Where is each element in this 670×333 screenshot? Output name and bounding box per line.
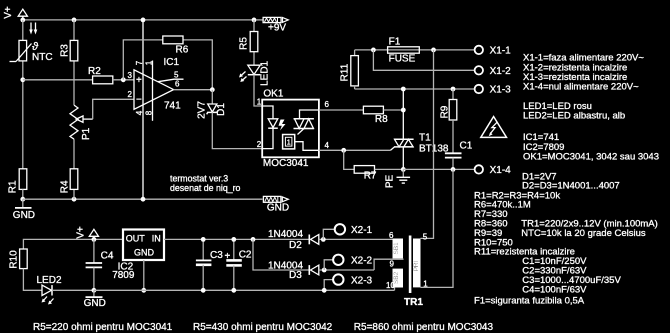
node dot IN rail / D3 branch (251, 237, 256, 242)
svg-text:X1-4=nul alimentare 220V~: X1-4=nul alimentare 220V~ (523, 82, 639, 93)
label GND tag (267, 203, 289, 214)
label OK1 pin 1 (257, 98, 262, 107)
OK1 zero-cross box (283, 135, 319, 151)
svg-text:R11: R11 (339, 63, 350, 81)
label FUSE (389, 54, 416, 65)
wire GND rail opamp section (23, 198, 263, 200)
resistor R2 (93, 76, 113, 84)
label X2-1 (351, 225, 373, 236)
svg-text:7809: 7809 (112, 270, 135, 281)
label C3 plus (225, 251, 231, 262)
svg-text:LED2=LED albastru, alb: LED2=LED albastru, alb (523, 110, 625, 121)
OK1 internal triac (294, 110, 319, 135)
transformer TR1 core (409, 236, 412, 294)
svg-text:GND: GND (84, 298, 106, 309)
wire LED2 to GND rail (52, 289, 94, 291)
node dot GND rail / C4 (92, 288, 97, 293)
label NTC theta symbol (32, 41, 39, 53)
resistor R10 (20, 249, 28, 269)
label pin 4 (135, 110, 144, 115)
label pin 5 (174, 71, 179, 80)
wire TR primary feed (421, 50, 434, 239)
svg-text:IC1: IC1 (164, 57, 180, 68)
label R9 (439, 105, 450, 118)
wire D2 to TR pin6 (319, 238, 393, 240)
power flag V+ top-left (18, 9, 27, 20)
wire X2-1 stub (323, 229, 334, 239)
wire down to R7 (344, 150, 355, 169)
svg-text:7: 7 (135, 60, 144, 65)
label OK1 pin 6 (325, 100, 330, 109)
svg-text:OK1=MOC3041, 3042 sau 3043: OK1=MOC3041, 3042 sau 3043 (523, 152, 659, 163)
svg-text:D2: D2 (289, 240, 302, 251)
svg-text:LED1: LED1 (259, 60, 270, 85)
label desenat de niq_ro (170, 183, 241, 193)
label GND IC2 (134, 248, 155, 258)
wire D3 to TR pin9 (319, 259, 404, 270)
op-amp IC1 (134, 20, 184, 199)
wire top V+ rail (23, 19, 254, 21)
svg-text:R9: R9 (439, 105, 450, 118)
svg-text:X2-3: X2-3 (351, 275, 373, 286)
power flag V+ bottom (89, 229, 98, 239)
svg-text:GND: GND (13, 210, 35, 221)
node dot top rail / R3 (72, 18, 77, 23)
wire R7 to T1 bottom (375, 168, 404, 170)
svg-text:9: 9 (390, 260, 395, 269)
svg-text:C2: C2 (239, 250, 252, 261)
wire X1-3 row (355, 88, 475, 90)
label R5 (239, 37, 250, 50)
label pin 6 (175, 80, 180, 89)
label T1 (419, 133, 431, 144)
transformer TR1 primary winding (413, 239, 421, 288)
wire IC2 GND to rail (143, 260, 145, 290)
svg-text:5: 5 (174, 71, 179, 80)
label TR1 (404, 297, 423, 308)
label D1 (216, 103, 227, 116)
node dot D2 / X2-1 (321, 237, 326, 242)
label X2-3 (351, 275, 373, 286)
svg-text:R5=860 ohmi pentru MOC3043: R5=860 ohmi pentru MOC3043 (354, 322, 494, 333)
svg-text:LED2: LED2 (37, 275, 62, 286)
node dot NTC/R2/R1 junction (20, 77, 25, 82)
warning triangle high voltage (481, 117, 507, 138)
node dot top rail / IC1 pin7 (141, 18, 146, 23)
label LED2 (37, 275, 62, 286)
resistor R11 heater (351, 50, 359, 89)
wire X1-2 row (373, 50, 474, 70)
svg-text:−: − (136, 95, 142, 106)
label BT138 (419, 144, 449, 155)
svg-text:1: 1 (257, 98, 262, 107)
supply tag GND mid (263, 196, 288, 202)
node dot R2/R6/pin3 (121, 77, 126, 82)
label pin 1 (145, 60, 154, 65)
label R8 (375, 114, 388, 125)
label 1N4004 D2 (268, 229, 303, 240)
label P1 (81, 127, 92, 140)
wire D3 branch (253, 239, 309, 270)
node dot X1-1 row / TR primary (431, 48, 436, 53)
capacitor C2 (226, 239, 242, 290)
svg-text:D1: D1 (216, 103, 227, 116)
label V+ bottom (76, 226, 87, 239)
svg-text:C1: C1 (460, 141, 473, 152)
svg-text:R3: R3 (59, 44, 70, 57)
label D2 (289, 240, 302, 251)
svg-text:R5: R5 (239, 37, 250, 50)
caption R5 MOC3041 (33, 322, 173, 333)
svg-text:TR1: TR1 (404, 297, 423, 308)
svg-text:P1: P1 (81, 127, 92, 140)
label pin 3 (128, 71, 133, 80)
svg-text:V+: V+ (3, 6, 14, 19)
svg-text:D3: D3 (289, 270, 302, 281)
resistor R4 (70, 169, 78, 190)
wire IN rail (164, 238, 309, 240)
label pin 8 (145, 110, 154, 115)
svg-text:SB1: SB1 (393, 242, 400, 255)
wire X2-3 stub (324, 280, 333, 291)
label OK1 pin 2 (257, 140, 262, 149)
wire X1-1 row (355, 49, 475, 51)
node dot top rail / NTC (20, 18, 25, 23)
wire X2-2 stub (324, 260, 333, 270)
svg-text:NTC: NTC (32, 52, 53, 63)
node dot V+ rail / C4 (92, 237, 97, 242)
connector X2-1 (335, 224, 345, 234)
svg-text:X2-2: X2-2 (351, 256, 373, 267)
svg-text:1N4004: 1N4004 (268, 229, 303, 240)
wire R2 to IC1 pin3 (113, 79, 134, 81)
connector X2-3 (333, 274, 343, 284)
label MOC3041 (263, 158, 309, 169)
label 2V7 (197, 101, 208, 119)
svg-text:10: 10 (386, 281, 395, 290)
svg-text:X1-1: X1-1 (490, 46, 512, 57)
svg-text:741: 741 (164, 101, 181, 112)
wire R3 column (73, 20, 75, 199)
label TR pin 6 (389, 231, 394, 240)
OK1 internal light arrow (279, 120, 286, 131)
wire R8 to T1 (383, 109, 403, 111)
wire P1 wiper to IC1 pin2 (93, 99, 134, 119)
capacitor C1 (445, 120, 462, 169)
svg-text:6: 6 (175, 80, 180, 89)
svg-text:IN: IN (152, 234, 161, 244)
svg-text:3: 3 (128, 71, 133, 80)
wire GND rail bottom (94, 288, 395, 291)
svg-text:NTC=10k la 20 grade Celsius: NTC=10k la 20 grade Celsius (521, 228, 646, 239)
label 1N4004 D3 (268, 260, 303, 271)
wire TR primary return (421, 169, 454, 287)
label pin 2 (128, 90, 133, 99)
label IC2 (118, 262, 134, 273)
label 7809 (112, 270, 135, 281)
svg-text:6: 6 (389, 231, 394, 240)
svg-text:6: 6 (325, 100, 330, 109)
OK1 internal LED (262, 106, 278, 149)
svg-text:C4=100nF/63V: C4=100nF/63V (522, 284, 587, 295)
node dot X2-3 / rail (322, 288, 327, 293)
label X2-2 (351, 256, 373, 267)
wire X1-4 row (403, 168, 474, 170)
label OUT (126, 234, 146, 244)
node dots C2 (231, 237, 236, 293)
svg-text:GND: GND (267, 203, 289, 214)
svg-text:R5=220 ohmi pentru MOC3041: R5=220 ohmi pentru MOC3041 (33, 322, 173, 333)
svg-text:C4: C4 (101, 251, 114, 262)
svg-text:2: 2 (257, 140, 262, 149)
svg-text:2V7: 2V7 (197, 101, 208, 119)
thermistor NTC (10, 23, 38, 62)
label X1-1 (490, 46, 512, 57)
label R2 (88, 66, 101, 77)
label R10 (9, 250, 20, 269)
node dot top rail / R5 (252, 18, 257, 23)
label D3 (289, 270, 302, 281)
label IC1 minus input (136, 95, 142, 106)
label R7 (364, 171, 377, 182)
ground GND bottom (86, 290, 103, 297)
label OK1 zero-cross 1 (287, 140, 291, 147)
node dot X1-3 row / T1 (401, 87, 406, 92)
label IC1 (164, 57, 180, 68)
svg-text:FUSE: FUSE (389, 54, 416, 65)
optocoupler OK1 box (262, 100, 319, 158)
triac T1 (391, 89, 414, 169)
svg-text:1: 1 (145, 60, 154, 65)
svg-text:5: 5 (423, 233, 428, 242)
wire R6 feedback loop (123, 40, 212, 90)
diode D3 (309, 265, 319, 275)
wire NTC junction to R2 (23, 79, 93, 81)
resistor R6 (163, 36, 183, 44)
resistor R8 (363, 106, 383, 114)
label TR pin 1 (423, 280, 428, 289)
svg-text:4: 4 (135, 110, 144, 115)
resistor R9 (449, 89, 457, 120)
resistor R3 (70, 40, 78, 61)
label TR pin 10 (386, 281, 395, 290)
label GND bottom (84, 298, 106, 309)
svg-text:desenat de niq_ro: desenat de niq_ro (170, 183, 241, 193)
node dot D3 / X2-2 (322, 268, 327, 273)
label X1-4 (490, 165, 512, 176)
label R11 (339, 63, 350, 81)
label GND left (13, 210, 35, 221)
svg-text:F1=siguranta fuzibila 0,5A: F1=siguranta fuzibila 0,5A (474, 295, 585, 306)
regulator IC2 7809 (123, 230, 164, 261)
node dot X1-4 row / C1 (451, 167, 456, 172)
LED LED2 (42, 285, 54, 304)
transformer TR1 secondary winding 2 (393, 269, 404, 288)
wire R1 to GND rail (22, 189, 24, 199)
svg-text:+9V: +9V (268, 23, 286, 34)
svg-text:1: 1 (287, 140, 291, 147)
svg-text:R10: R10 (9, 250, 20, 269)
svg-text:X1-3: X1-3 (490, 85, 512, 96)
capacitor C3 (196, 239, 212, 290)
transformer TR1 secondary winding 1 (393, 239, 404, 259)
LED LED1 (239, 65, 260, 82)
svg-text:X2-1: X2-1 (351, 225, 373, 236)
label V+ top-left (3, 6, 14, 19)
connector X1-3 (475, 85, 483, 93)
label TR pin 9 (390, 260, 395, 269)
node dot IC2 GND / rail (141, 288, 146, 293)
label C1 (460, 141, 473, 152)
label TR pin 5 (423, 233, 428, 242)
label OK1 pin 4 (325, 141, 330, 150)
svg-text:T1: T1 (419, 133, 431, 144)
svg-text:X1-4: X1-4 (490, 165, 512, 176)
svg-text:C3: C3 (210, 250, 223, 261)
svg-text:R2: R2 (88, 66, 101, 77)
svg-text:R6: R6 (176, 45, 189, 56)
node dot X1-3 row / R9 (451, 87, 456, 92)
label R1 (8, 180, 19, 193)
wire R10 to LED2 (23, 269, 42, 291)
svg-text:8: 8 (145, 110, 154, 115)
wire OK1 pin6 to R8 (319, 109, 364, 111)
svg-text:X1-2: X1-2 (490, 66, 512, 77)
svg-text:R7: R7 (364, 171, 377, 182)
svg-text:1: 1 (423, 280, 428, 289)
svg-text:4: 4 (325, 141, 330, 150)
label F1 (389, 37, 401, 48)
resistor R1 (19, 169, 27, 190)
svg-text:PE: PE (385, 175, 396, 189)
wire D1 to OK1 pin2 (212, 112, 262, 148)
label PE (385, 175, 396, 189)
node dot R8/T1 (401, 108, 406, 113)
svg-text:R1: R1 (8, 180, 19, 193)
label X1-3 (490, 85, 512, 96)
svg-text:GND: GND (134, 248, 155, 258)
label IN (152, 234, 161, 244)
label termostat ver.3 (170, 173, 228, 183)
wire IC1 output (174, 89, 213, 91)
label C2 (239, 250, 252, 261)
svg-text:PRI: PRI (413, 260, 420, 271)
label C3 (210, 250, 223, 261)
wire V+ rail bottom left (23, 239, 123, 249)
svg-text:R4: R4 (59, 180, 70, 193)
potentiometer P1 (70, 105, 93, 139)
svg-text:V+: V+ (76, 226, 87, 239)
label C4 (101, 251, 114, 262)
node dot pin4/R7 branch (341, 148, 346, 153)
label LED1 (259, 60, 270, 85)
zener diode D1 (207, 90, 218, 115)
label X1-2 (490, 66, 512, 77)
svg-text:F1: F1 (389, 37, 401, 48)
connector X2-2 (333, 255, 343, 265)
supply tag +9V (256, 17, 288, 22)
node dot IC1 pin4/GND rail (141, 197, 146, 202)
node dot R4/GND rail (72, 197, 77, 202)
connector X1-2 (475, 66, 483, 74)
label R4 (59, 180, 70, 193)
node dots C3 (201, 237, 206, 293)
connector X1-4 (475, 165, 483, 173)
svg-text:MOC3041: MOC3041 (263, 158, 309, 169)
label R3 (59, 44, 70, 57)
label R6 (176, 45, 189, 56)
svg-text:2: 2 (128, 90, 133, 99)
connector X1-1 (475, 46, 483, 54)
node dot X1-1 row / X1-2 branch (371, 48, 376, 53)
label NTC (32, 52, 53, 63)
node dot output/R6/D1 (210, 87, 215, 92)
ground GND left (15, 199, 32, 208)
svg-text:+: + (136, 75, 142, 86)
caption R5 MOC3043 (354, 322, 494, 333)
wire R5 column (253, 20, 255, 65)
node dot T1 bottom rail (401, 167, 406, 172)
svg-text:termostat ver.3: termostat ver.3 (170, 173, 228, 183)
resistor R7 (354, 166, 374, 174)
wire NTC column (22, 20, 24, 169)
text block right column (474, 53, 659, 307)
node dot R1/GND rail (20, 197, 25, 202)
svg-text:R5=430 ohmi pentru MOC3042: R5=430 ohmi pentru MOC3042 (193, 322, 333, 333)
ground PE earth symbol (397, 169, 411, 183)
diode D2 (309, 235, 319, 245)
capacitor C4 (86, 239, 103, 290)
svg-text:OUT: OUT (126, 234, 146, 244)
wire LED1 to OK1 pin1 (254, 75, 262, 106)
wire OK1 pin4 to gate (319, 149, 391, 151)
caption R5 MOC3042 (193, 322, 333, 333)
fuse F1 (388, 47, 420, 53)
label 741 (164, 101, 181, 112)
svg-text:OK1: OK1 (263, 89, 283, 100)
svg-text:R8: R8 (375, 114, 388, 125)
label OK1 (263, 89, 283, 100)
label IC1 plus input (136, 75, 142, 86)
label pin 7 (135, 60, 144, 65)
resistor R5 (250, 32, 258, 52)
label +9V (268, 23, 286, 34)
